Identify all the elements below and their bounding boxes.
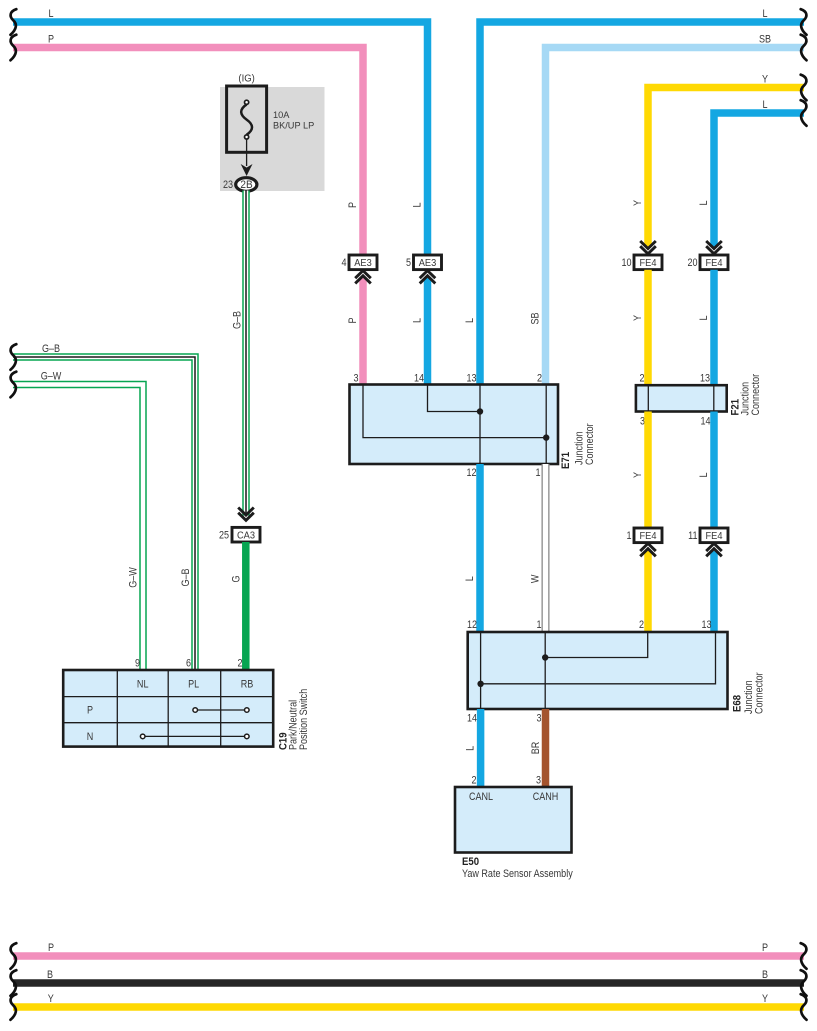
svg-text:FE4: FE4 bbox=[706, 258, 724, 270]
wire SB lightblue horizontal+vertical to E71 pin2 bbox=[546, 48, 805, 386]
wire Y yellow horizontal+vertical to FE4-10 bbox=[648, 88, 804, 248]
switch contact row N bbox=[143, 735, 247, 737]
wire Y yellow F21 pin3 to FE4-1 bbox=[644, 412, 652, 529]
wire W white E71 pin1 to E68 pin1 bbox=[542, 464, 550, 632]
wire break left L bbox=[11, 9, 17, 35]
svg-text:(IG): (IG) bbox=[238, 73, 254, 84]
connector FE4 pin20 box bbox=[700, 255, 728, 270]
svg-text:W: W bbox=[530, 574, 542, 583]
svg-text:FE4: FE4 bbox=[640, 531, 658, 543]
svg-text:13: 13 bbox=[701, 619, 711, 631]
wire P pink AE3 to E71 pin3 bbox=[359, 278, 367, 385]
connector CA3 chevrons bbox=[238, 513, 254, 521]
wire L blue F21 pin14 to FE4-11 bbox=[710, 412, 718, 529]
wire Y yellow FE4-1 to E68 pin2 bbox=[644, 551, 652, 632]
wire G green CA3 to C19 pin2 bbox=[242, 542, 250, 670]
wire break Y bottom left bbox=[11, 994, 17, 1020]
junction connector E71 box bbox=[350, 385, 559, 465]
connector 2B oval bbox=[236, 178, 257, 192]
connector FE4 pin1 chevrons bbox=[640, 544, 656, 552]
svg-text:AE3: AE3 bbox=[354, 258, 372, 270]
wire P pink horizontal+vertical to AE3 bbox=[13, 48, 363, 256]
svg-text:G–B: G–B bbox=[42, 343, 60, 355]
wire break P bottom right bbox=[801, 943, 807, 969]
svg-text:20: 20 bbox=[687, 257, 697, 269]
svg-text:14: 14 bbox=[467, 713, 477, 725]
wire break B bottom left bbox=[11, 970, 17, 996]
svg-text:CA3: CA3 bbox=[237, 530, 256, 542]
svg-text:Y: Y bbox=[762, 74, 768, 86]
svg-text:RB: RB bbox=[241, 679, 254, 691]
svg-text:6: 6 bbox=[186, 658, 191, 670]
svg-text:Y: Y bbox=[632, 200, 644, 206]
svg-text:L: L bbox=[412, 202, 424, 207]
connector FE4 pin11 box bbox=[700, 528, 728, 543]
svg-text:FE4: FE4 bbox=[640, 258, 658, 270]
svg-text:N: N bbox=[87, 731, 94, 743]
svg-text:12: 12 bbox=[466, 467, 476, 479]
wire L blue E71 pin12 to E68 pin12 bbox=[476, 464, 484, 632]
svg-text:Connector: Connector bbox=[750, 373, 762, 415]
svg-text:2: 2 bbox=[537, 373, 542, 385]
svg-text:B: B bbox=[762, 969, 768, 981]
svg-text:3: 3 bbox=[353, 373, 358, 385]
svg-text:25: 25 bbox=[219, 530, 229, 542]
svg-text:9: 9 bbox=[135, 658, 140, 670]
wire Y yellow FE4-10 to F21 pin2 bbox=[644, 270, 652, 385]
E68 internal wire pin13 bbox=[481, 632, 716, 684]
svg-text:11: 11 bbox=[688, 530, 698, 542]
component C19 park/neutral position switch box bbox=[63, 670, 273, 747]
E71 internal wire pin3 bbox=[363, 385, 546, 438]
svg-text:P: P bbox=[48, 34, 54, 46]
svg-text:5: 5 bbox=[406, 257, 411, 269]
svg-text:1: 1 bbox=[535, 467, 540, 479]
connector FE4 pin10 chevrons bbox=[640, 246, 656, 254]
svg-text:1: 1 bbox=[536, 619, 541, 631]
wire L blue horizontal+vertical to FE4-20 bbox=[714, 113, 804, 247]
svg-text:2: 2 bbox=[639, 619, 644, 631]
arrow into 2B bbox=[241, 164, 253, 176]
svg-text:AE3: AE3 bbox=[419, 258, 437, 270]
wire Y yellow bottom bbox=[13, 1003, 804, 1011]
svg-text:NL: NL bbox=[137, 679, 149, 691]
wire break P bottom left bbox=[11, 943, 17, 969]
svg-text:12: 12 bbox=[467, 619, 477, 631]
svg-text:10A: 10A bbox=[273, 110, 290, 120]
component E50 yaw rate sensor box bbox=[455, 787, 572, 853]
svg-text:CANL: CANL bbox=[469, 791, 493, 803]
fuse 10A BK/UP LP bbox=[227, 86, 267, 152]
svg-text:L: L bbox=[48, 8, 53, 20]
wire break left G-W bbox=[11, 372, 17, 398]
wire BR brown E68 pin3 to E50 CANH bbox=[542, 709, 550, 787]
wire P pink bottom bbox=[13, 952, 804, 960]
switch contact row P bbox=[195, 709, 247, 711]
svg-text:FE4: FE4 bbox=[706, 531, 724, 543]
wire L blue top-right horizontal to E71 pin13 bbox=[480, 22, 804, 385]
fuse block gray background bbox=[220, 87, 325, 191]
svg-text:G: G bbox=[231, 575, 243, 582]
connector AE3 pin4 box bbox=[349, 255, 377, 270]
svg-text:G–W: G–W bbox=[128, 567, 140, 588]
wire break left P bbox=[11, 35, 17, 61]
wire break right SB bbox=[801, 35, 807, 61]
E68 internal wire pin2 bbox=[545, 632, 648, 658]
connector AE3 pin5 chevrons bbox=[420, 271, 436, 279]
connector FE4 pin1 box bbox=[634, 528, 662, 543]
svg-text:B: B bbox=[47, 969, 53, 981]
svg-text:14: 14 bbox=[414, 373, 424, 385]
svg-text:3: 3 bbox=[536, 713, 541, 725]
connector AE3 pin5 box bbox=[414, 255, 442, 270]
svg-text:2: 2 bbox=[471, 775, 476, 787]
svg-text:Y: Y bbox=[762, 993, 768, 1005]
svg-text:L: L bbox=[762, 8, 767, 20]
F21 internal wire 1 bbox=[647, 385, 649, 411]
svg-text:G–B: G–B bbox=[232, 311, 244, 329]
svg-text:1: 1 bbox=[626, 530, 631, 542]
wire break Y bottom right bbox=[801, 994, 807, 1020]
wire break right Y bbox=[801, 75, 807, 101]
svg-text:Connector: Connector bbox=[754, 672, 766, 714]
svg-text:P: P bbox=[762, 942, 768, 954]
svg-text:L: L bbox=[464, 576, 476, 581]
svg-text:BR: BR bbox=[530, 742, 542, 755]
svg-text:Y: Y bbox=[632, 315, 644, 321]
wire G-B green/black from 2B to CA3 bbox=[242, 191, 250, 517]
svg-text:P: P bbox=[347, 202, 359, 208]
svg-text:13: 13 bbox=[466, 373, 476, 385]
junction connector F21 box bbox=[636, 385, 727, 411]
svg-text:10: 10 bbox=[621, 257, 631, 269]
C19 table row lines bbox=[63, 696, 273, 698]
junction dot E71 b bbox=[543, 434, 549, 440]
E68 internal wire pin1-3 bbox=[544, 632, 546, 709]
svg-text:P: P bbox=[347, 317, 359, 323]
C19 table column lines bbox=[116, 670, 118, 747]
connector FE4 pin11 chevrons bbox=[706, 544, 722, 552]
wire L blue AE3 to E71 pin14 bbox=[424, 278, 432, 385]
svg-text:2: 2 bbox=[639, 373, 644, 385]
svg-text:P: P bbox=[87, 705, 93, 717]
wire break left G-B bbox=[11, 344, 17, 370]
junction dot E71 a bbox=[477, 408, 483, 414]
svg-text:14: 14 bbox=[700, 416, 710, 428]
svg-text:E50: E50 bbox=[462, 856, 479, 868]
junction dot E68 b bbox=[477, 681, 483, 687]
svg-text:CANH: CANH bbox=[533, 791, 559, 803]
svg-text:E68: E68 bbox=[732, 695, 744, 712]
svg-text:L: L bbox=[464, 318, 476, 323]
wire fuse to connector 2B bbox=[246, 139, 248, 166]
junction connector E68 box bbox=[468, 632, 728, 709]
svg-text:P: P bbox=[48, 942, 54, 954]
svg-text:3: 3 bbox=[536, 775, 541, 787]
wire G-B green/black horizontal to C19 pin6 bbox=[13, 357, 195, 670]
svg-text:PL: PL bbox=[188, 679, 199, 691]
svg-text:L: L bbox=[698, 315, 710, 320]
wire break right L2 bbox=[801, 100, 807, 126]
connector CA3 box bbox=[232, 527, 260, 542]
connector FE4 pin10 box bbox=[634, 255, 662, 270]
svg-text:2B: 2B bbox=[240, 180, 252, 191]
svg-text:Position Switch: Position Switch bbox=[298, 689, 310, 750]
svg-text:E71: E71 bbox=[560, 452, 572, 469]
E71 internal wire pin2-1 bbox=[545, 385, 547, 465]
connector AE3 pin4 chevrons bbox=[355, 271, 371, 279]
svg-text:Connector: Connector bbox=[584, 423, 596, 465]
svg-text:L: L bbox=[412, 318, 424, 323]
wire G-W green/white horizontal to C19 pin9 bbox=[13, 385, 143, 671]
svg-text:SB: SB bbox=[759, 34, 771, 46]
wire break B bottom right bbox=[801, 970, 807, 996]
wire L blue E68 pin14 to E50 CANL bbox=[477, 709, 485, 787]
connector FE4 pin20 chevrons bbox=[706, 246, 722, 254]
wire break right L bbox=[801, 9, 807, 35]
svg-text:L: L bbox=[465, 746, 477, 751]
wire L blue FE4-20 to F21 pin13 bbox=[710, 270, 718, 385]
svg-text:2: 2 bbox=[237, 658, 242, 670]
junction dot E68 a bbox=[542, 654, 548, 660]
svg-text:13: 13 bbox=[700, 373, 710, 385]
svg-text:Y: Y bbox=[632, 472, 644, 478]
svg-text:L: L bbox=[762, 99, 767, 111]
svg-text:Yaw Rate Sensor Assembly: Yaw Rate Sensor Assembly bbox=[462, 868, 574, 880]
svg-text:L: L bbox=[698, 200, 710, 205]
wire B black bottom bbox=[13, 979, 804, 987]
F21 internal wire 2 bbox=[713, 385, 715, 411]
svg-text:L: L bbox=[698, 472, 710, 477]
svg-text:BK/UP LP: BK/UP LP bbox=[273, 120, 314, 130]
svg-text:Y: Y bbox=[48, 993, 54, 1005]
svg-text:SB: SB bbox=[530, 312, 542, 324]
svg-text:4: 4 bbox=[341, 257, 346, 269]
E68 internal wire pin12-14 bbox=[480, 632, 482, 709]
E71 internal wire pin14 bbox=[428, 385, 481, 412]
svg-text:23: 23 bbox=[223, 179, 233, 191]
wire L blue FE4-11 to E68 pin13 bbox=[710, 551, 718, 632]
E71 internal wire pin13-12 bbox=[479, 385, 481, 465]
svg-text:G–B: G–B bbox=[180, 568, 192, 586]
wire L blue top-left horizontal to AE3-5 bbox=[13, 22, 428, 255]
svg-text:G–W: G–W bbox=[41, 371, 62, 383]
